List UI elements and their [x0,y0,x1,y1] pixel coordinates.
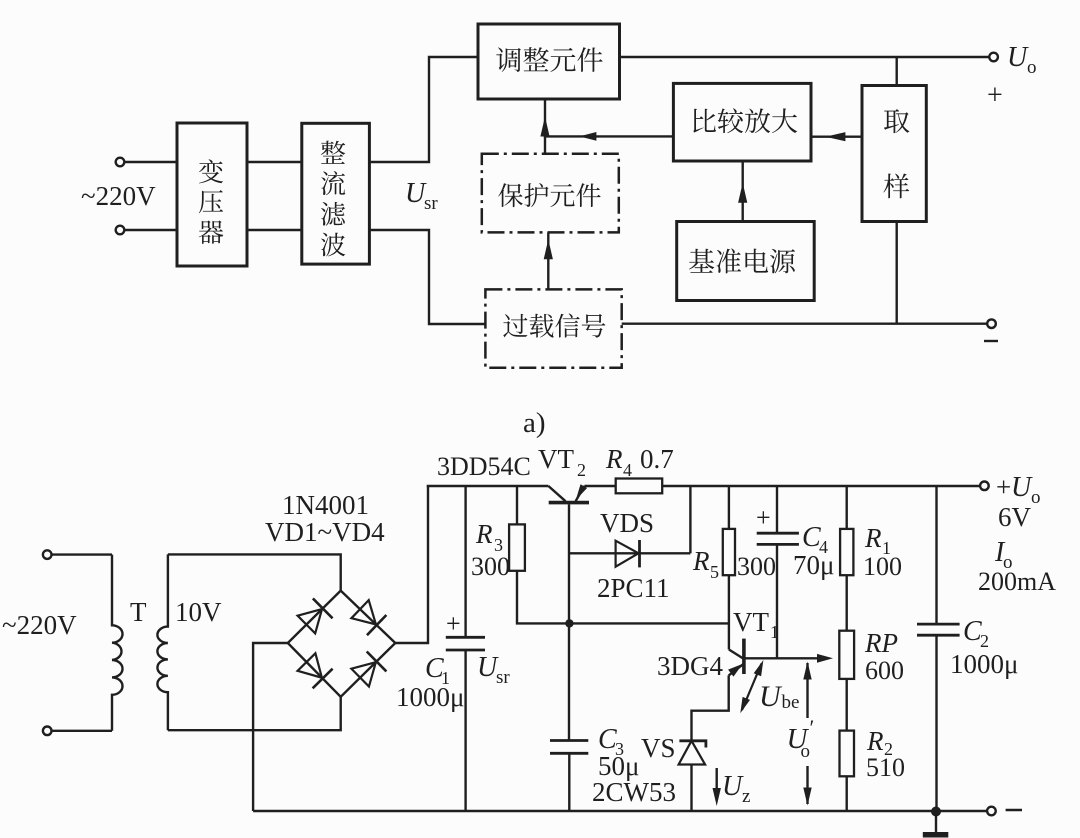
svg-text:VT: VT [538,444,574,474]
wire adjust element to +Uo output [620,56,990,58]
capacitor C1 plates [446,636,485,639]
terminal +Uo (schematic) [980,482,989,491]
label 比较放大 [693,108,797,133]
svg-text:+: + [446,609,461,638]
bottom rail (ground rail) [253,810,987,812]
arrow Uz downward [716,768,718,798]
label - (schematic output) [1006,809,1022,812]
wire VT1 emitter to zener VS [692,675,729,740]
svg-text:300: 300 [737,552,776,581]
wire rectifier output bottom to overload block [369,230,485,324]
ground symbol [935,812,937,833]
junction dot ground node [931,807,941,817]
svg-text:100: 100 [863,552,902,581]
top rail R4 to +Uo terminal [662,485,980,487]
resistor R3 body [509,524,525,570]
block 过载信号 overload signal box (dash-dot) [485,289,621,367]
transistor VT2 collector diagonal (left) [548,486,565,501]
diode VD1 (left-top side, points to top vertex) [297,598,333,634]
svg-text:+: + [996,472,1011,502]
top rail VT2 to R4 [584,485,615,487]
svg-text:4: 4 [623,460,632,480]
resistor R1 top lead [846,486,848,529]
resistor R1 body [840,529,853,575]
wire secondary top to bridge top vertex [168,554,341,590]
transistor VT2 emitter arrowhead [573,484,588,502]
wire transformer to rectifier bottom [247,229,302,231]
capacitor C4 plates [757,532,799,535]
svg-text:VDS: VDS [600,508,654,538]
svg-text:1N4001: 1N4001 [282,490,369,520]
wire sampling to comparison amplifier [811,135,862,137]
svg-text:+: + [756,503,771,532]
svg-text:z: z [742,786,750,807]
svg-text:T: T [130,597,147,627]
diode VD4 (bottom-right side, points to right vertex) [350,652,386,688]
svg-text:U: U [759,680,783,713]
svg-text:2: 2 [980,631,989,651]
block 保护元件 protection element box (dash-dot) [482,154,619,233]
diode VD3 (left-bottom side, points to bottom vertex) [297,652,333,688]
svg-text:0.7: 0.7 [640,444,674,474]
arrowhead up into comparison amplifier [738,183,747,203]
svg-text:3DD54C: 3DD54C [437,452,531,481]
wire R1 to RP [846,575,848,631]
svg-text:sr: sr [424,193,438,214]
svg-text:o: o [1031,487,1041,508]
wire rectifier output top to adjust block [369,57,478,162]
label 过载信号 [503,313,605,337]
wire comparison amplifier to adjust vertical [545,99,673,136]
svg-text:′: ′ [810,715,815,740]
block 变压器 transformer box [177,123,247,266]
wire bottom rail to - output [622,323,988,325]
svg-text:R: R [605,444,623,474]
terminal AC bottom (schematic) [43,727,52,736]
bridge diamond wiring VD1~VD4 [288,591,396,697]
capacitor C3 bottom lead [568,753,570,811]
block 基准电源 reference source box [677,222,815,301]
block 整流滤波 rectifier-filter box [302,123,370,264]
svg-text:200mA: 200mA [978,567,1056,596]
svg-text:300: 300 [471,552,510,581]
svg-text:U: U [722,771,744,802]
capacitor C1 bottom lead [464,650,466,811]
transistor VT2 base bar [549,501,589,505]
transistor VT2 base lead down [568,504,570,740]
label 取样 [883,109,909,198]
svg-text:R: R [864,523,882,553]
arrowhead up into protection element [544,239,553,259]
arrowhead up into adjust element [540,117,549,137]
block 调整元件 adjust element box [478,24,620,99]
svg-text:70μ: 70μ [793,550,834,580]
block 取样 sampling box [862,86,926,222]
arrowhead into comparison amplifier [825,132,845,141]
svg-text:U: U [1007,42,1029,73]
wire overload signal to protection element [547,232,549,289]
capacitor C4 top lead [776,486,778,533]
diode VDS wire from VT2 base line [570,552,691,554]
transistor VT1 emitter diagonal [729,664,744,675]
transformer T primary winding [112,555,123,731]
svg-text:2PC11: 2PC11 [597,573,670,603]
transistor VT1 base bar (vertical) [742,639,746,674]
wire AC bottom to primary [52,730,113,732]
wire AC top to primary [52,553,113,555]
svg-text:VD1~VD4: VD1~VD4 [265,517,385,547]
arrow Ube curved double arrow [742,664,762,711]
svg-text:1: 1 [770,622,779,642]
label - (block diagram output) [984,340,998,342]
transistor VT2 emitter diagonal (right) [576,486,585,501]
zener VS anode lead to bottom rail [690,765,692,812]
svg-text:2CW53: 2CW53 [592,777,676,807]
arrowhead left on comparison-to-adjust wire [579,132,596,141]
wire input top to transformer block [124,161,177,163]
svg-text:600: 600 [865,656,904,685]
capacitor C1 top lead [464,486,466,637]
svg-text:2: 2 [577,460,586,480]
svg-text:R: R [866,726,884,756]
svg-text:R: R [475,519,493,549]
wire protect element top to junction [544,136,546,153]
resistor R5 body [723,529,735,575]
svg-text:VT: VT [733,607,769,637]
potentiometer RP wiper arrowhead [817,654,833,663]
svg-text:VS: VS [641,733,676,763]
transistor VT1 base lead to RP wiper [746,657,825,659]
svg-text:o: o [801,741,811,762]
junction dot VT2 base node [565,619,573,627]
wire bridge right vertex up to top rail [395,486,428,643]
svg-text:~220V: ~220V [81,181,156,211]
diode VD2 (top-right side, points to right vertex) [350,599,386,635]
label 调整元件 [496,47,602,72]
capacitor C2 top lead [935,486,937,624]
label 保护元件 [498,183,600,207]
diode VDS cathode bar [638,540,641,567]
resistor R3 bottom lead to junction [517,571,569,624]
resistor R2 body [840,731,855,777]
transformer T secondary winding [157,554,168,730]
label 变压器 [199,159,224,244]
capacitor C3 plates [550,739,588,742]
zener VS triangle [679,741,706,765]
label 基准电源 [689,248,795,273]
terminal +Uo (block diagram) [989,53,998,62]
capacitor C2 bottom lead [935,635,937,811]
wire RP to R2 [846,679,848,731]
capacitor C2 plates [917,623,960,626]
svg-text:U: U [1011,472,1033,503]
svg-text:a): a) [523,407,546,439]
resistor R2 bottom lead [846,776,848,811]
svg-text:o: o [1027,57,1037,78]
svg-text:1000μ: 1000μ [396,682,464,712]
top rail left segment to VT2 [427,485,549,487]
wire transformer to rectifier top [247,161,302,163]
wire reference source to comparison amplifier [742,161,744,222]
terminal - output (schematic) [987,807,996,816]
diode VDS triangle [616,541,639,567]
wire sampling block down to bottom rail [896,222,898,324]
transistor VT1 collector diagonal [729,650,743,659]
block 比较放大 comparison amplifier box [673,83,811,161]
resistor R3 top lead [516,486,518,524]
label 整流滤波 [321,141,346,257]
resistor R5 top lead [728,486,730,529]
wire VT2 base node to VT1 collector node [569,622,729,624]
svg-text:1000μ: 1000μ [950,649,1018,679]
potentiometer RP body [839,631,854,679]
svg-text:RP: RP [864,628,898,658]
wire VDS cathode up to top rail [689,486,691,553]
svg-text:R: R [692,546,710,576]
arrow Uo' double arrow [806,663,808,718]
terminal AC top (schematic) [43,550,52,559]
resistor R5 bottom lead to VT1 collector [728,575,730,649]
svg-text:6V: 6V [998,502,1032,532]
svg-text:be: be [782,692,800,713]
zener VS cathode bar with hook [679,741,706,748]
capacitor C4 bottom lead to VT1 base line [776,544,778,658]
terminal - output (block diagram) [987,319,996,328]
svg-text:10V: 10V [175,597,222,627]
wire secondary bottom to bridge bottom vertex [168,697,341,730]
resistor R4 body [616,479,663,494]
svg-text:~220V: ~220V [2,610,77,640]
svg-text:3DG4: 3DG4 [657,651,723,681]
svg-text:sr: sr [496,667,510,688]
svg-text:510: 510 [866,753,905,782]
wire bridge left vertex to bottom rail [253,643,288,811]
transistor VT1 emitter arrowhead [728,660,745,676]
terminal: AC input top (block diagram) [116,158,125,167]
svg-text:+: + [987,80,1003,111]
terminal: AC input bottom (block diagram) [116,226,125,235]
svg-text:5: 5 [710,562,719,582]
wire input bottom to transformer block [124,229,177,231]
wire top rail to sampling block [896,57,898,86]
